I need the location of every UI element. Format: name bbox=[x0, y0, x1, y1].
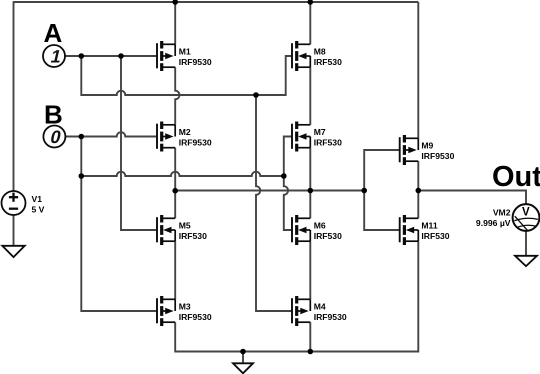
transistor M9 bbox=[400, 135, 455, 165]
svg-text:VM2: VM2 bbox=[493, 207, 511, 217]
svg-text:V1: V1 bbox=[32, 194, 43, 204]
junction net A at 256 bbox=[253, 92, 259, 98]
svg-text:5 V: 5 V bbox=[32, 204, 45, 214]
wire pre-out row bbox=[175, 190, 364, 192]
wire net B vertical to M3 gate bbox=[81, 137, 157, 312]
node B terminal circle bbox=[43, 126, 65, 148]
wire output to voltmeter bbox=[418, 191, 526, 205]
ground V1 bbox=[2, 246, 24, 257]
node B input wire bbox=[65, 132, 157, 136]
svg-text:IRF9530: IRF9530 bbox=[179, 138, 212, 148]
svg-text:IRF530: IRF530 bbox=[179, 231, 207, 241]
svg-text:M8: M8 bbox=[314, 47, 326, 57]
wire left column VDD to M1 bbox=[174, 2, 176, 44]
junction net A at 121 bbox=[118, 53, 124, 59]
node A terminal circle bbox=[43, 45, 65, 67]
wire left VDD rail to V1 bbox=[13, 1, 15, 191]
svg-text:A: A bbox=[44, 18, 63, 48]
wire mid column M4-ground rail bbox=[309, 322, 311, 351]
wire right column VDD to M9 bbox=[417, 2, 419, 138]
wire left column M3-ground rail bbox=[175, 322, 310, 351]
node B label bbox=[44, 99, 63, 129]
junction output node bbox=[416, 188, 422, 194]
junction pre-out gate tee bbox=[361, 188, 367, 194]
transistor M3 bbox=[157, 296, 212, 326]
svg-text:M3: M3 bbox=[179, 302, 191, 312]
svg-text:M6: M6 bbox=[314, 221, 326, 231]
node Out label bbox=[492, 161, 540, 193]
node A label bbox=[44, 18, 63, 48]
svg-text:M2: M2 bbox=[179, 127, 191, 137]
junction net B row left bbox=[79, 173, 85, 179]
svg-text:M11: M11 bbox=[421, 221, 437, 231]
transistor M1 bbox=[157, 41, 212, 71]
svg-text:M1: M1 bbox=[179, 47, 191, 57]
svg-text:Out: Out bbox=[492, 161, 540, 193]
junction ground rail stub bbox=[240, 349, 246, 355]
svg-text:V: V bbox=[522, 206, 530, 218]
svg-text:IRF9530: IRF9530 bbox=[179, 57, 212, 67]
junction net B at 81 bbox=[79, 134, 85, 140]
svg-text:M7: M7 bbox=[314, 127, 326, 137]
transistor M11 bbox=[400, 215, 450, 245]
transistor M8 bbox=[292, 41, 342, 71]
wire VDD top rail bbox=[14, 1, 419, 3]
svg-text:IRF530: IRF530 bbox=[314, 57, 342, 67]
wire left column M5-M3 bbox=[174, 241, 176, 299]
svg-text:IRF9530: IRF9530 bbox=[314, 312, 347, 322]
wire mid column M7-M6 bbox=[309, 148, 311, 219]
wire V1 to ground bbox=[13, 215, 15, 246]
wire right column M9-M11 bbox=[417, 161, 419, 218]
svg-text:IRF530: IRF530 bbox=[421, 231, 449, 241]
wire left column M2-M5 bbox=[174, 148, 176, 219]
transistor M4 bbox=[292, 296, 347, 326]
wire mid column M6-M4 bbox=[309, 241, 311, 299]
junction pre-out mid column bbox=[308, 188, 314, 194]
transistor M2 bbox=[157, 122, 212, 152]
wire M9-M11 gate tee bbox=[364, 150, 400, 230]
svg-text:IRF530: IRF530 bbox=[314, 138, 342, 148]
ground VM2 bbox=[515, 256, 537, 266]
junction VDD mid column bbox=[308, 0, 314, 5]
junction net A at 81 bbox=[79, 53, 85, 59]
ground bottom rail bbox=[233, 363, 253, 373]
transistor M6 bbox=[292, 215, 342, 245]
wire mid column VDD to M8 bbox=[309, 2, 311, 44]
wire VM2 to ground bbox=[525, 231, 527, 256]
wire net B vertical M7-M6 gates bbox=[284, 137, 292, 231]
wire net A vertical to M5 gate bbox=[121, 56, 157, 230]
wire right column M11-ground rail bbox=[310, 241, 418, 351]
junction pre-out left column bbox=[172, 188, 178, 194]
wire net B horizontal row bbox=[81, 172, 283, 176]
node A input wire bbox=[65, 55, 157, 57]
junction net B row right bbox=[281, 173, 287, 179]
svg-text:M5: M5 bbox=[179, 221, 191, 231]
svg-text:9.996 µV: 9.996 µV bbox=[476, 218, 511, 228]
svg-text:IRF9530: IRF9530 bbox=[421, 151, 454, 161]
svg-text:IRF9530: IRF9530 bbox=[179, 312, 212, 322]
wire left column M1-M2 bbox=[175, 67, 179, 125]
wire ground stub bottom rail bbox=[242, 352, 244, 364]
wire net A vertical to M4 gate bbox=[256, 95, 292, 311]
transistor M5 bbox=[157, 215, 207, 245]
svg-text:M4: M4 bbox=[314, 302, 326, 312]
junction ground rail mid column bbox=[308, 349, 314, 355]
svg-text:IRF530: IRF530 bbox=[314, 231, 342, 241]
transistor M7 bbox=[292, 122, 342, 152]
junction VDD left column bbox=[172, 0, 178, 5]
svg-text:M9: M9 bbox=[421, 141, 433, 151]
voltage source V1 bbox=[2, 191, 45, 215]
wire net A elbow to M8 gate bbox=[81, 56, 292, 95]
wire mid column M8-M7 bbox=[309, 67, 311, 125]
voltmeter VM2 bbox=[476, 204, 539, 231]
